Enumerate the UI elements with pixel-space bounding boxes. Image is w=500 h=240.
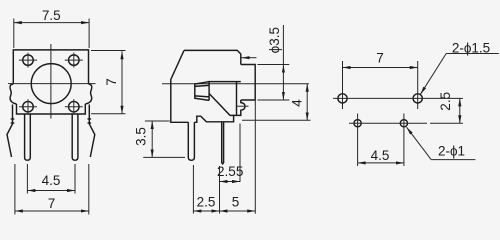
corner rivet bottom-right [65, 99, 83, 114]
svg-text:2.55: 2.55 [217, 164, 243, 179]
wide leg (front pin) [188, 122, 194, 160]
svg-text:2-ϕ1: 2-ϕ1 [438, 144, 465, 159]
svg-text:4.5: 4.5 [371, 148, 390, 163]
inner top line [208, 81, 241, 83]
right face with locating peg [194, 100, 245, 122]
body left slant and left face [171, 50, 189, 122]
corner rivet top-left [19, 53, 37, 68]
dimensions 2.5 and 5 (bottom) [193, 101, 255, 214]
corner rivet top-right [65, 53, 83, 68]
dimension phi 3.5 (button) [257, 25, 289, 100]
button (side) [241, 65, 255, 101]
svg-text:2.5: 2.5 [438, 92, 453, 111]
svg-text:4: 4 [289, 99, 304, 107]
svg-text:5: 5 [232, 195, 240, 210]
top-right hole vertical centerline [417, 61, 419, 109]
left outer bent leg [7, 105, 13, 158]
hole top-left [338, 94, 347, 103]
label 2-phi1 with leader [407, 127, 476, 159]
bottom row centerline [349, 122, 427, 124]
right outer bent leg [89, 105, 95, 158]
svg-text:7: 7 [48, 196, 56, 211]
dimension 7 (bottom overall) [15, 164, 89, 215]
svg-text:3.5: 3.5 [133, 127, 148, 146]
corner rivet bottom-left [19, 99, 37, 114]
leader arrow at top right face [242, 57, 257, 59]
hole top-right [413, 94, 422, 103]
hole bottom-left [354, 120, 361, 127]
2.5 extension right [430, 122, 463, 124]
peg centerline [237, 105, 249, 107]
svg-text:4.5: 4.5 [42, 173, 61, 188]
top row centerline [333, 97, 463, 99]
thin leg (rear pin) [222, 122, 224, 164]
right side tab [85, 84, 92, 104]
switch body (front) [13, 50, 88, 84]
inner leg right [72, 114, 78, 160]
bottom-left hole vertical centerline [357, 114, 359, 167]
dimension 7 (right vertical) [91, 51, 126, 114]
hole bottom-right [400, 120, 407, 127]
dimension 3.5 (leg length) [133, 121, 185, 157]
dimension 4 (height) [242, 84, 311, 121]
inner leg left [25, 114, 31, 160]
svg-text:2.5: 2.5 [197, 195, 216, 210]
svg-text:7.5: 7.5 [42, 8, 61, 23]
label 2-phi1.5 with leader [421, 40, 499, 94]
dimension 4.5 (hole spacing bottom) [358, 148, 404, 163]
button (big circle) [31, 64, 71, 104]
inner back face [236, 82, 238, 116]
dimension 2.55 [217, 124, 243, 183]
big diagonal (bracket) [209, 94, 234, 116]
plunger [195, 82, 209, 101]
dimension 7.5 (top) [14, 8, 89, 48]
bottom-right hole vertical centerline [403, 114, 405, 167]
svg-text:7: 7 [376, 51, 384, 66]
horizontal centerline [8, 83, 96, 85]
dimension 7 (hole spacing top) [343, 51, 418, 68]
dimension 2.5 (row spacing) [438, 92, 460, 123]
left side tab [10, 84, 17, 104]
top-left hole vertical centerline [342, 61, 344, 109]
dimension 4.5 (bottom inner legs) [27, 164, 75, 194]
svg-text:7: 7 [104, 78, 119, 86]
svg-text:ϕ3.5: ϕ3.5 [267, 27, 282, 53]
vertical centerline [50, 44, 52, 119]
body top edge [184, 50, 241, 64]
horizontal centerline [162, 83, 309, 85]
